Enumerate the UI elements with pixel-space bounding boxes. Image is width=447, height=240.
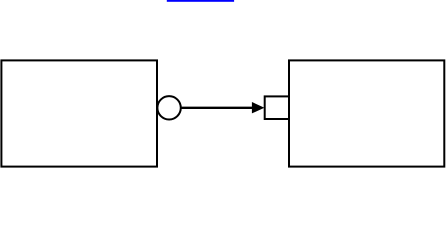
port square on right box (265, 96, 289, 119)
connector wire (180, 107, 254, 109)
provided interface ball (157, 96, 180, 119)
left component box (1, 60, 157, 166)
hyperlink underline (clipped link at top) (167, 0, 234, 2)
right component box (289, 60, 444, 166)
arrowhead (252, 102, 265, 113)
